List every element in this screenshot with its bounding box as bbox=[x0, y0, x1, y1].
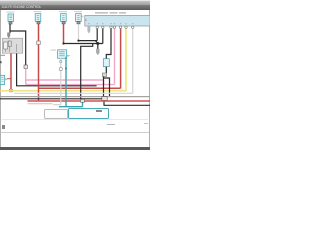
page arrow right of S5 bbox=[67, 52, 71, 57]
ring splice on white wire bbox=[59, 67, 62, 70]
separator line 2 bbox=[1, 131, 149, 134]
page arrow under ECM left pin bbox=[87, 26, 90, 33]
teal vertical right bbox=[82, 102, 84, 107]
pink wire vertical left bbox=[25, 68, 27, 84]
label left of ECM bbox=[80, 16, 83, 18]
white bus wire bbox=[14, 92, 133, 94]
black bus bottom left bbox=[0, 98, 103, 100]
junction dot at red S3 bbox=[62, 42, 64, 44]
left edge component box LB bbox=[0, 75, 4, 84]
ECM pin circle red bbox=[119, 26, 121, 28]
ECM black pin wire 2 bbox=[102, 28, 104, 43]
white wire from S5 bbox=[53, 58, 61, 105]
pink wire jog bbox=[103, 80, 105, 85]
label left of S5 bbox=[51, 50, 57, 51]
junction dot at white S4 bbox=[77, 40, 79, 42]
label above S2 bbox=[34, 11, 42, 12]
black branch down-left bbox=[103, 77, 106, 106]
ECM pin number marks bbox=[88, 23, 133, 24]
connector under S1 bbox=[9, 22, 12, 24]
cyan connector box on black wire bbox=[103, 59, 109, 67]
ECM pin circle 2 bbox=[102, 26, 104, 28]
black path from junction down-left bbox=[81, 44, 93, 100]
ECM pink wire bbox=[114, 28, 116, 84]
connector under S3 bbox=[62, 22, 65, 24]
panel tiny text right bbox=[144, 123, 148, 124]
connector mark on S5 wire bbox=[60, 61, 62, 63]
ECM label text above box bbox=[95, 12, 126, 14]
red wire S2 to ECM red bbox=[39, 87, 121, 89]
connector on S1 wire (black to pink) bbox=[24, 65, 27, 68]
panel tiny text mid bbox=[107, 124, 115, 125]
black bus upper bbox=[79, 40, 98, 42]
page arrow into relay block bbox=[7, 33, 10, 39]
gray button bbox=[44, 109, 68, 120]
wire from S1 (black) bbox=[9, 24, 11, 33]
ECM pin circle pink bbox=[113, 26, 115, 28]
red stub to LB bbox=[7, 78, 12, 80]
ECM internal label mark bbox=[85, 19, 87, 21]
ECM red wire bbox=[120, 28, 122, 88]
label above S4 bbox=[74, 11, 82, 12]
component box S4 bbox=[76, 14, 82, 22]
ECM pin circle 1 bbox=[96, 26, 98, 28]
teal button label bbox=[96, 110, 102, 112]
teal button bbox=[68, 108, 109, 120]
teal wire vertical bbox=[65, 57, 67, 107]
page arrow right of LB bbox=[5, 78, 8, 81]
ECM pin circle 3 bbox=[110, 26, 112, 28]
component box S1 bbox=[8, 14, 14, 22]
ECM black pin wire 1 bbox=[96, 28, 98, 40]
black diagonal into junction bbox=[95, 41, 97, 44]
wire below cyan connector bbox=[105, 67, 107, 73]
page arrow below junction bbox=[96, 49, 99, 56]
title text bbox=[2, 5, 62, 9]
component box S2 bbox=[35, 14, 41, 22]
left edge tiny label bbox=[0, 61, 2, 63]
faint red spur bbox=[28, 103, 53, 105]
red wire from S2 bbox=[38, 24, 40, 101]
ECM pin circle yellow bbox=[125, 26, 127, 28]
connector under S4 bbox=[77, 22, 80, 24]
black stub below junction bbox=[97, 44, 99, 50]
connector black to teal bbox=[81, 99, 85, 102]
gray connector on black wire bbox=[102, 73, 106, 77]
label above S3 bbox=[59, 11, 67, 12]
splice connector red to yellow bbox=[9, 89, 12, 92]
teal bus horizontal bbox=[59, 106, 83, 108]
black branch down-right bbox=[104, 78, 110, 97]
ECM yellow wire bbox=[125, 28, 127, 91]
teal junction dot bbox=[65, 68, 67, 70]
connector on S2 wire bbox=[37, 41, 41, 45]
junction dot main bbox=[96, 42, 99, 45]
red bus bottom bbox=[28, 100, 151, 102]
label under relay block bbox=[1, 54, 6, 57]
component box S5 bbox=[58, 50, 67, 59]
relay internals bbox=[4, 41, 17, 52]
black bus lower bbox=[64, 43, 103, 45]
right window border bbox=[148, 10, 151, 147]
wire S1 branch right and down bbox=[10, 31, 26, 65]
panel tiny text left bbox=[2, 125, 5, 129]
separator line 1 bbox=[2, 118, 148, 121]
black wire from relay block to right bbox=[17, 54, 97, 86]
pink wire horizontal lower bbox=[26, 84, 115, 86]
white wire from S4 bbox=[78, 24, 80, 41]
component box S3 bbox=[61, 14, 67, 22]
bottom status bar bbox=[0, 147, 150, 151]
connector under S2 bbox=[37, 22, 40, 24]
gray bus wire bbox=[0, 96, 150, 98]
ECM white wire bbox=[132, 28, 134, 93]
yellow bus wire bbox=[0, 90, 126, 92]
red wire from S3 bbox=[63, 24, 65, 43]
relay block R/B bbox=[2, 38, 22, 53]
ECM black pin wire 3 jog bbox=[106, 28, 111, 58]
ECM box U1 bbox=[85, 15, 150, 26]
window title bar bbox=[0, 0, 150, 6]
ECM pin circle white bbox=[132, 26, 134, 28]
black bus bottom right bbox=[104, 104, 150, 106]
label above S1 bbox=[7, 12, 15, 13]
pink wire horizontal upper bbox=[26, 79, 104, 81]
toolbar bar bbox=[0, 5, 150, 11]
red wire from relay block bbox=[10, 54, 12, 90]
left window border bbox=[0, 10, 2, 147]
connector on black bus bbox=[102, 97, 107, 101]
